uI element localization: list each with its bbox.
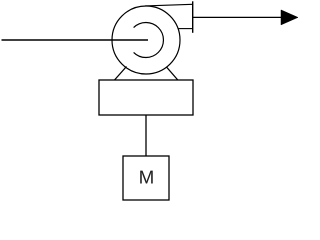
- base rectangle: [99, 80, 193, 115]
- outlet duct top line: [145, 4, 193, 6]
- suction line (inlet wire): [2, 39, 149, 41]
- discharge line: [193, 16, 283, 18]
- outlet duct bottom line: [179, 28, 193, 30]
- support leg right: [167, 67, 178, 80]
- motor connector wire: [145, 115, 147, 156]
- support leg left: [115, 67, 127, 81]
- impeller (inner arc, gap facing left): [134, 23, 164, 58]
- outlet flange (vertical bar): [192, 1, 194, 33]
- blower casing (outer circle): [112, 6, 180, 74]
- motor box M: [123, 156, 169, 200]
- arrowhead: [281, 10, 298, 25]
- label M: [140, 171, 153, 184]
